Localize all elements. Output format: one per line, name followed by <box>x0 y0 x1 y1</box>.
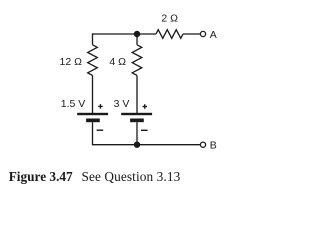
svg-text:Figure 3.47: Figure 3.47 <box>9 169 73 184</box>
node junction top <box>134 31 140 37</box>
svg-text:3 V: 3 V <box>114 98 130 110</box>
battery 1.5V short plate (-) <box>86 119 100 123</box>
label minus 3V <box>141 130 148 131</box>
svg-text:1.5 V: 1.5 V <box>61 98 86 110</box>
battery 3V long plate (+) <box>121 113 152 115</box>
wire middle branch middle vertical <box>136 75 138 113</box>
wire left branch lower vertical <box>92 122 94 145</box>
wire middle branch lower vertical <box>136 122 138 145</box>
wire left branch upper vertical <box>92 33 94 44</box>
svg-text:See Question 3.13: See Question 3.13 <box>82 169 181 184</box>
svg-text:4 Ω: 4 Ω <box>109 56 126 68</box>
wire left branch middle vertical <box>92 75 94 113</box>
svg-text:B: B <box>210 139 217 151</box>
terminal A circle <box>200 31 205 36</box>
label plus 1.5V <box>98 104 103 109</box>
battery 1.5V long plate (+) <box>77 113 108 115</box>
resistor 12 ohm (vertical zigzag) <box>88 45 98 76</box>
terminal B circle <box>200 142 205 147</box>
svg-text:2 Ω: 2 Ω <box>161 13 178 25</box>
wire top horizontal (junction to resistor) <box>137 33 156 35</box>
label minus 1.5V <box>97 130 104 131</box>
resistor 2 ohm (horizontal zigzag) <box>156 30 183 39</box>
node junction bottom <box>134 142 140 148</box>
label plus 3V <box>143 104 148 109</box>
battery 3V short plate (-) <box>130 119 144 123</box>
wire resistor to terminal A <box>183 33 200 35</box>
resistor 4 ohm (vertical zigzag) <box>132 45 142 76</box>
wire middle branch upper vertical <box>136 34 138 45</box>
wire top-left horizontal (node to junction) <box>93 33 138 35</box>
svg-text:A: A <box>210 29 217 41</box>
svg-text:12 Ω: 12 Ω <box>60 56 83 68</box>
wire bottom horizontal <box>93 144 201 146</box>
